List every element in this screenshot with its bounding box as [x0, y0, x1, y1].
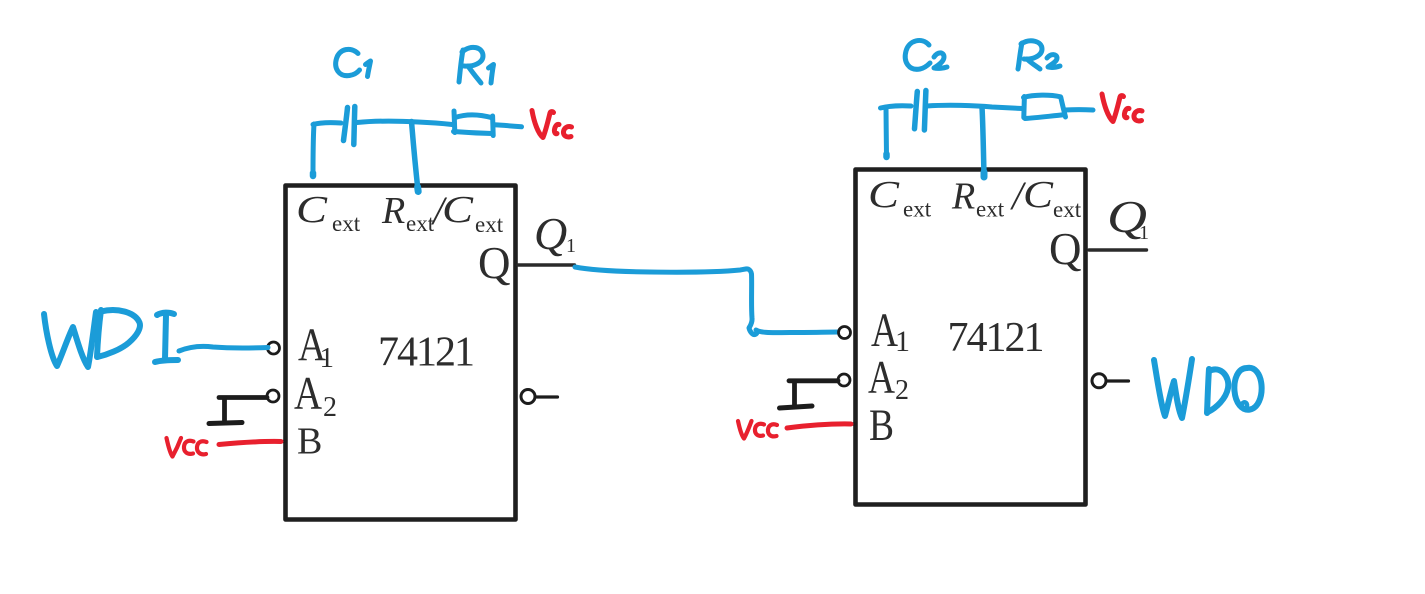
svg-text:ext: ext — [475, 212, 504, 237]
svg-text:1: 1 — [566, 235, 576, 257]
wire horizontal C2 left segment (blue) — [881, 106, 912, 108]
wire horizontal C1 left segment (blue) — [313, 123, 341, 125]
svg-text:A: A — [868, 352, 895, 404]
resistor R2 body (blue) — [1024, 95, 1066, 118]
svg-text:C: C — [1023, 174, 1054, 216]
U2 pin label Cext — [868, 174, 932, 222]
U2 pin label Q — [1049, 224, 1082, 274]
label Vcc (red handwritten, top right) — [1102, 94, 1142, 122]
wire vcc to U1 B (red) — [219, 441, 281, 444]
U1 output label Q1 — [534, 208, 576, 259]
wire R1 to Vcc (blue) — [494, 125, 522, 127]
U1 Q output line — [518, 263, 575, 266]
svg-text:C: C — [296, 189, 328, 231]
wire R2 to Vcc (blue) — [1065, 107, 1093, 112]
U2 Qbar bubble — [1092, 374, 1129, 388]
label vcc (red handwritten, right) — [738, 421, 777, 439]
resistor R1 label (blue) — [459, 47, 494, 83]
wire vcc to U2 B (red) — [787, 424, 851, 428]
U1 A2 ground tie symbol — [209, 398, 267, 424]
U1 B pin stub — [274, 440, 285, 443]
capacitor C2 plates (blue) — [915, 91, 926, 131]
svg-text:2: 2 — [895, 375, 909, 406]
label vcc (red handwritten, left) — [167, 438, 207, 457]
svg-text:Q: Q — [1049, 224, 1082, 274]
svg-text:C: C — [868, 174, 900, 216]
svg-text:1: 1 — [895, 325, 910, 358]
U2 pin label A1 — [871, 304, 910, 358]
capacitor C1 label (blue) — [336, 49, 371, 76]
U2 B pin stub — [844, 422, 855, 425]
svg-text:ext: ext — [1053, 197, 1082, 222]
svg-text:ext: ext — [332, 211, 361, 236]
svg-text:1: 1 — [1139, 222, 1149, 244]
U1 pin label B — [297, 421, 322, 463]
wire C2 left lead down to U2 Cext pin (blue) — [884, 107, 890, 157]
U1 label 74121 — [378, 330, 473, 376]
wire WDI to U1 A1 (blue) — [179, 346, 268, 351]
IC U1 74121 body — [286, 186, 516, 520]
U2 pin label A2 — [868, 352, 909, 407]
svg-text:R: R — [381, 190, 405, 232]
svg-text:ext: ext — [406, 211, 435, 236]
svg-text:Q: Q — [478, 238, 511, 288]
U2 pin label B — [869, 401, 894, 450]
wire C1 left lead down to U1 Cext pin (blue) — [313, 124, 314, 176]
wire Rext pin drop (blue) — [412, 122, 419, 192]
wire C2 to R2 (blue) — [927, 105, 1022, 108]
svg-text:ext: ext — [976, 197, 1005, 222]
U1 pin A2 bubble — [267, 390, 279, 402]
resistor R2 label (blue) — [1018, 41, 1060, 69]
svg-text:74121: 74121 — [948, 315, 1043, 361]
capacitor C1 plates (blue) — [344, 107, 355, 145]
U1 pin label A2 — [294, 368, 337, 424]
U2 A2 ground tie symbol — [780, 381, 839, 408]
U1 pin label Cext — [296, 189, 361, 236]
U2 output label Q1 — [1107, 191, 1149, 244]
U2 Q output line — [1089, 248, 1147, 251]
capacitor C2 label (blue) — [905, 40, 947, 69]
U1 pin label Q — [478, 238, 511, 288]
U1 pin label A1 — [298, 319, 334, 374]
label Vcc (red handwritten, top left) — [532, 111, 572, 138]
U2 pin label Rext/Cext — [951, 173, 1082, 222]
svg-text:A: A — [294, 368, 322, 420]
resistor R1 body (blue) — [454, 111, 494, 136]
svg-text:C: C — [442, 189, 474, 231]
wire U1 Q to U2 A1 (blue) — [575, 267, 839, 335]
label WDI (blue handwritten) — [44, 310, 178, 367]
wire C1 to R1 (blue) — [357, 121, 452, 124]
svg-text:ext: ext — [903, 197, 932, 222]
wire U2 Rext pin drop (blue) — [982, 107, 984, 177]
svg-text:B: B — [297, 421, 322, 463]
IC U2 74121 body — [856, 170, 1086, 505]
svg-text:74121: 74121 — [378, 330, 473, 376]
svg-text:Q: Q — [534, 208, 567, 259]
U2 pin A2 bubble — [838, 374, 850, 386]
svg-text:2: 2 — [323, 392, 337, 423]
label WDO (blue handwritten) — [1154, 359, 1262, 418]
U2 label 74121 — [948, 315, 1043, 361]
svg-text:R: R — [951, 176, 975, 218]
svg-text:B: B — [869, 401, 894, 450]
U1 pin label Rext/Cext — [381, 188, 504, 237]
U2 pin A1 bubble — [839, 327, 851, 339]
U1 pin A1 bubble — [268, 342, 280, 354]
U1 Qbar bubble — [521, 390, 558, 404]
